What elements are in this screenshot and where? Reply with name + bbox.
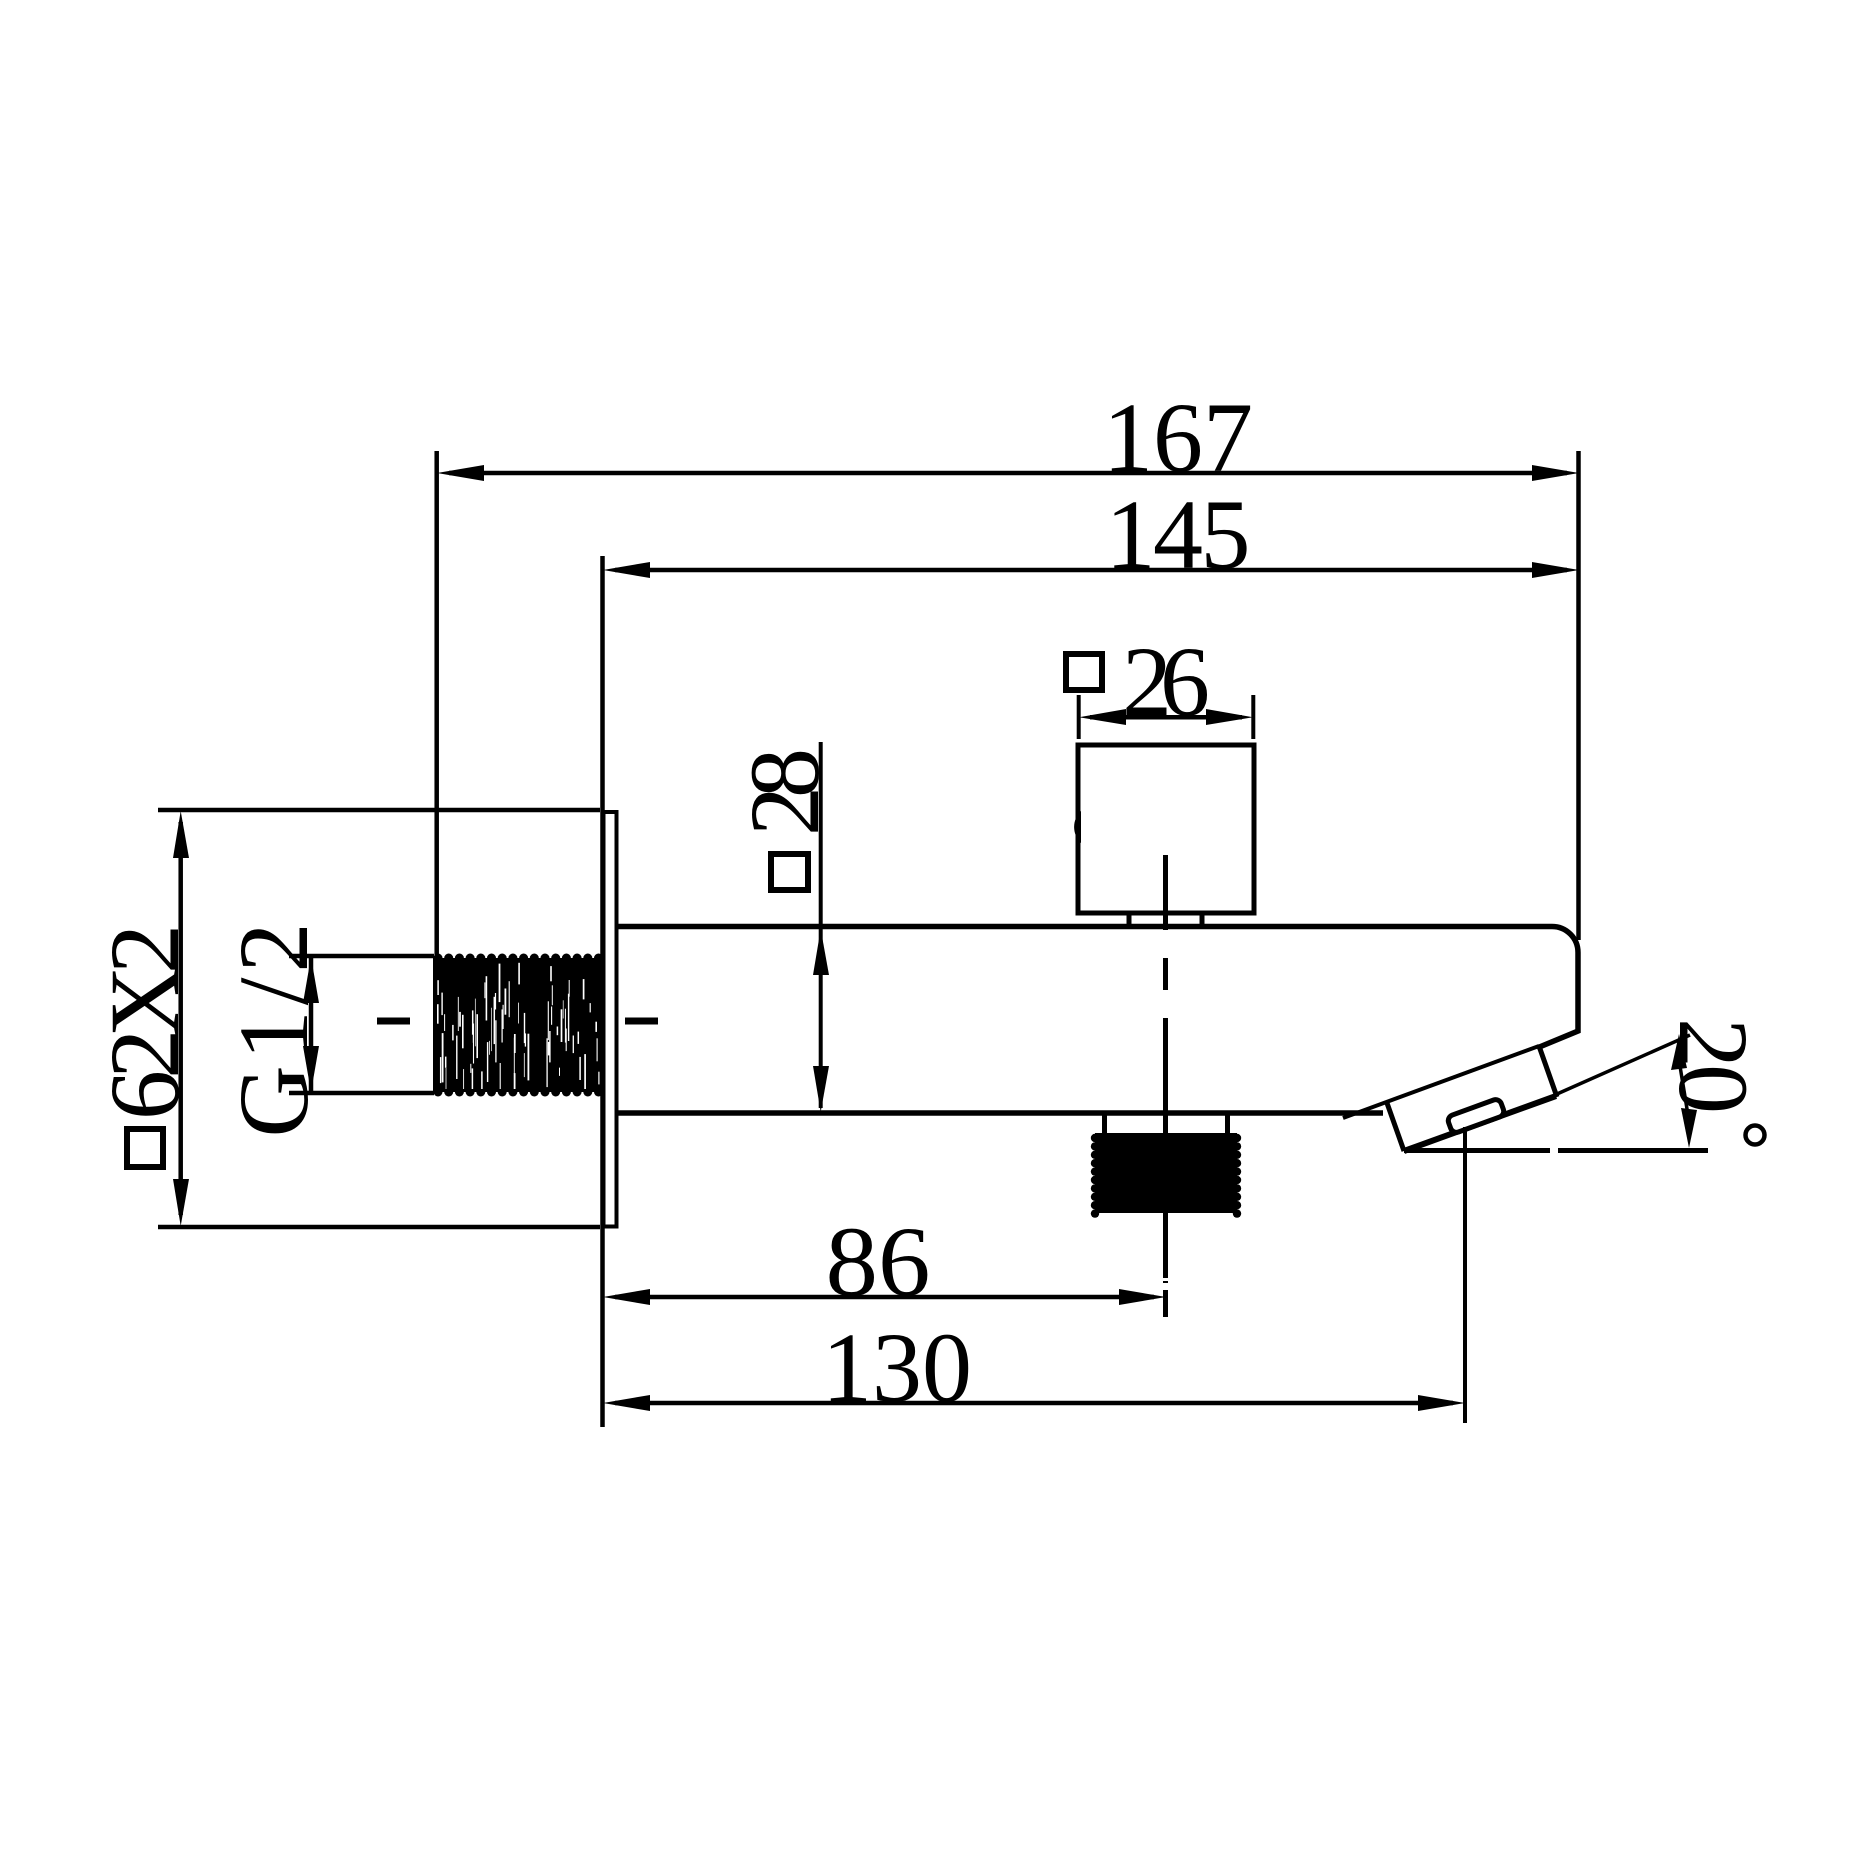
svg-text:145: 145 <box>1106 479 1251 590</box>
vertical center line through handle and knob <box>1163 855 1168 1317</box>
extension line left of 167 (pipe end) <box>434 451 439 956</box>
knurled diverter knob (bottom, black) stems <box>1102 1113 1107 1133</box>
dimension 145 line <box>615 568 1567 573</box>
long left extension line (wall face) <box>600 556 605 1427</box>
diverter handle (top square knob) <box>1078 745 1254 913</box>
svg-text:G1/2: G1/2 <box>218 923 329 1138</box>
svg-text:20: 20 <box>1658 1018 1769 1114</box>
G1/2 extension lines <box>289 954 434 959</box>
outlet center line <box>1463 1127 1467 1423</box>
square symbol for 26 <box>1066 654 1102 690</box>
threaded pipe (hatched black thread block) <box>433 954 603 1097</box>
handle left bump <box>1074 811 1081 843</box>
dimension 62X2 arrows <box>173 811 189 858</box>
extension line right of 167/145 (spout tip) <box>1576 451 1581 940</box>
svg-text:130: 130 <box>822 1312 972 1423</box>
dimension 167 line <box>449 471 1567 476</box>
dimension 167 arrows <box>437 465 484 481</box>
wall flange plate <box>604 812 617 1227</box>
dimension 26 line <box>1090 715 1242 720</box>
dimension 62X2 line <box>178 822 183 1215</box>
dimension 26 arrows <box>1079 709 1126 725</box>
dimension 28 line <box>819 742 823 1108</box>
spout outlet angled tip <box>1343 1046 1539 1118</box>
dimension 145 arrows <box>603 562 650 578</box>
dimension 28 arrows <box>813 929 829 975</box>
spout body bottom line <box>616 1110 1383 1116</box>
knurled diverter knob body <box>1091 1133 1241 1218</box>
square symbol for 62X2 <box>127 1129 163 1167</box>
svg-text:167: 167 <box>1103 382 1253 493</box>
G1/2 dimension line <box>309 958 314 1091</box>
handle neck <box>1127 913 1132 926</box>
svg-text:86: 86 <box>826 1206 931 1317</box>
spout body outline <box>616 927 1578 1049</box>
dimension 26 extension lines <box>1077 695 1081 739</box>
dimension 86 arrows <box>603 1289 650 1305</box>
20 degree reference horizontal line <box>1404 1148 1550 1153</box>
svg-text:26: 26 <box>1122 626 1210 737</box>
20 degree arc arrows <box>1679 1060 1688 1115</box>
square symbol for 28 <box>771 854 808 890</box>
dimension 86 line <box>615 1295 1154 1300</box>
20 degree angled dimension line <box>1557 1035 1690 1094</box>
svg-text:28: 28 <box>729 748 840 836</box>
dimension 130 arrows <box>603 1395 650 1411</box>
dimension 130 line <box>615 1401 1453 1406</box>
svg-text:62X2: 62X2 <box>89 924 200 1120</box>
G1/2 arrows <box>303 957 319 1003</box>
dimension 62X2 extension lines <box>158 808 600 813</box>
outlet slot <box>1447 1098 1506 1134</box>
pipe axis center line dashes <box>377 1018 410 1025</box>
